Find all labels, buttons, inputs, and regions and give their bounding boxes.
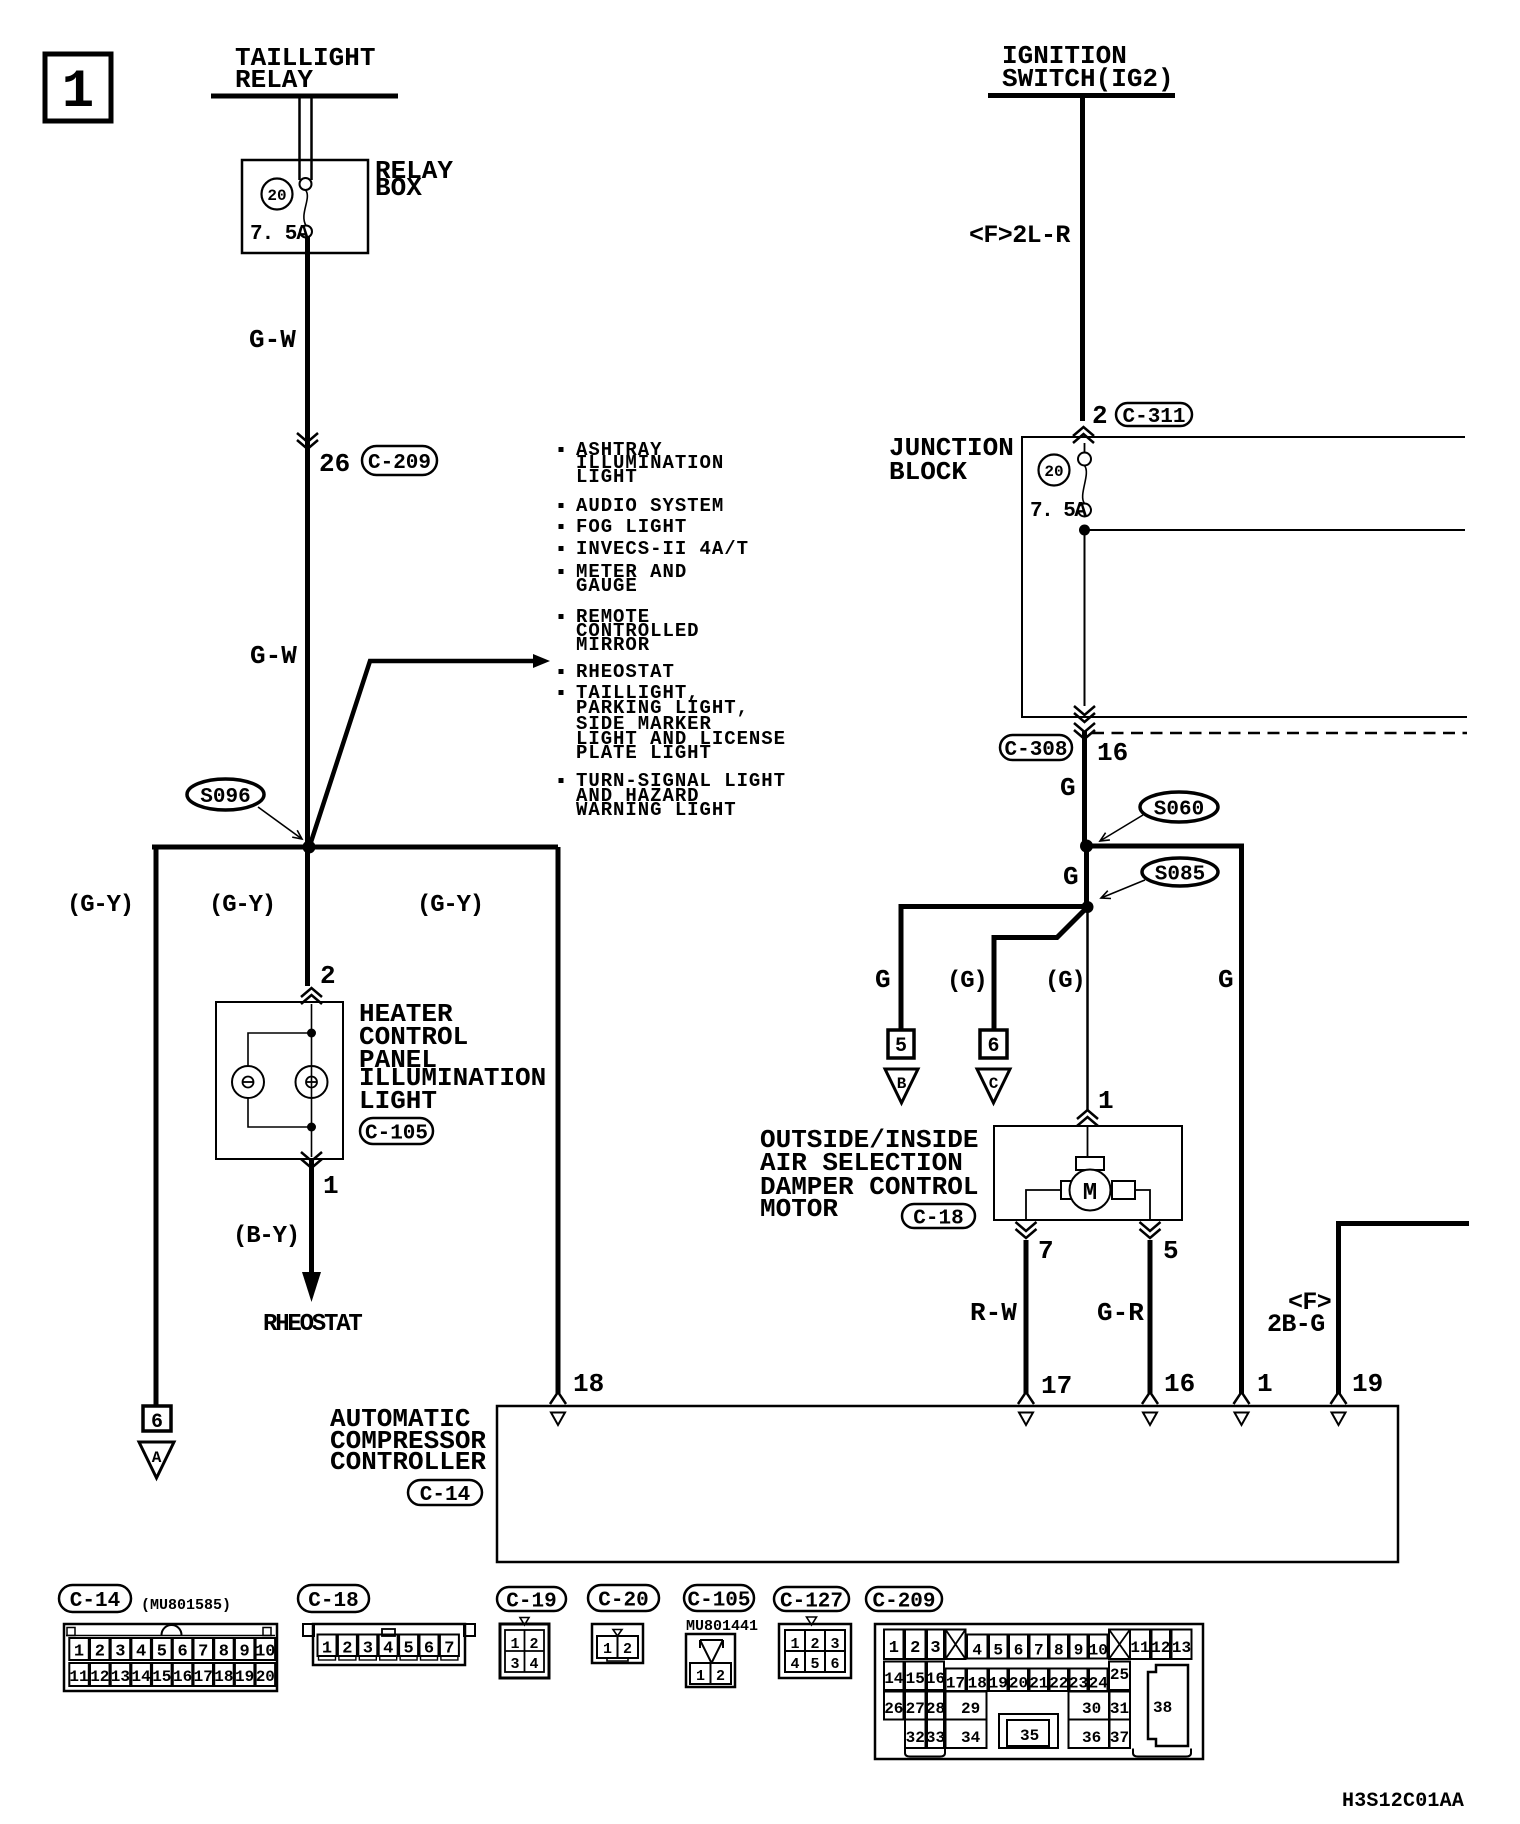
- svg-text:14: 14: [131, 1668, 151, 1686]
- svg-text:2: 2: [910, 1639, 920, 1658]
- svg-text:4: 4: [136, 1643, 146, 1662]
- connector C-311 capsule: [1116, 403, 1192, 426]
- splice S060 junction dot: [1080, 840, 1093, 853]
- relay box: [242, 160, 368, 253]
- svg-text:23: 23: [1069, 1675, 1088, 1693]
- svg-text:4: 4: [529, 1656, 538, 1673]
- svg-text:8: 8: [219, 1643, 229, 1662]
- wire G branch right to controller pin 1: [1087, 846, 1242, 1394]
- svg-text:LIGHT: LIGHT: [359, 1086, 437, 1116]
- svg-text:14: 14: [884, 1670, 904, 1688]
- connector C-14 pinout: [59, 1585, 131, 1612]
- svg-text:MOTOR: MOTOR: [760, 1194, 838, 1224]
- svg-text:(B-Y): (B-Y): [233, 1223, 299, 1250]
- motor cap: [1076, 1157, 1104, 1170]
- junction dot below fuse: [1079, 525, 1090, 536]
- svg-text:RHEOSTAT: RHEOSTAT: [263, 1311, 362, 1338]
- svg-text:<F>2L-R: <F>2L-R: [969, 221, 1070, 250]
- svg-text:AUDIO SYSTEM: AUDIO SYSTEM: [576, 495, 724, 517]
- wire to motor: [1087, 1126, 1089, 1158]
- svg-text:19: 19: [989, 1675, 1008, 1693]
- junction block entry chevron pin 2: [1073, 434, 1094, 443]
- svg-text:2: 2: [810, 1636, 819, 1653]
- svg-text:7. 5A: 7. 5A: [250, 223, 309, 246]
- junction block exit chevron pin 16: [1074, 706, 1095, 715]
- svg-text:35: 35: [1020, 1727, 1039, 1745]
- terminal 6 box (A): [143, 1406, 171, 1431]
- svg-text:R-W: R-W: [970, 1298, 1017, 1328]
- svg-text:6: 6: [830, 1656, 839, 1673]
- wire G-R to controller pin 16: [1148, 1240, 1153, 1394]
- svg-text:B: B: [897, 1075, 907, 1093]
- svg-text:M: M: [1083, 1180, 1097, 1207]
- svg-text:2B-G: 2B-G: [1267, 1310, 1325, 1339]
- leader arrow S060: [1100, 815, 1143, 841]
- svg-text:18: 18: [214, 1668, 233, 1686]
- svg-text:(G-Y): (G-Y): [209, 892, 275, 919]
- junction block outline: [1022, 437, 1467, 717]
- motor symbol M: [1061, 1181, 1085, 1199]
- svg-text:22: 22: [1049, 1675, 1068, 1693]
- svg-text:C-209: C-209: [368, 452, 431, 475]
- svg-text:19: 19: [1352, 1369, 1383, 1399]
- svg-text:19: 19: [235, 1668, 254, 1686]
- leader arrow S096: [258, 807, 302, 839]
- reference arrowhead: [533, 654, 550, 668]
- svg-text:7. 5A: 7. 5A: [1030, 500, 1087, 523]
- svg-text:C-19: C-19: [506, 1590, 556, 1613]
- rheostat arrowhead: [302, 1272, 321, 1302]
- svg-text:C-14: C-14: [420, 1484, 470, 1507]
- svg-text:9: 9: [1074, 1642, 1084, 1660]
- svg-text:17: 17: [194, 1668, 213, 1686]
- connector C-209 pass-through chevron pin 26: [297, 433, 318, 442]
- splice S060 label: [1140, 792, 1218, 822]
- connector C-308 capsule: [1000, 735, 1072, 760]
- svg-text:C-18: C-18: [913, 1207, 963, 1230]
- svg-text:17: 17: [1041, 1371, 1072, 1401]
- svg-text:5: 5: [157, 1643, 167, 1662]
- svg-text:1: 1: [510, 1636, 519, 1653]
- svg-text:3: 3: [510, 1656, 519, 1673]
- svg-text:6: 6: [1014, 1642, 1024, 1660]
- svg-text:1: 1: [1257, 1369, 1273, 1399]
- wire G S060 to S085: [1084, 846, 1089, 907]
- svg-text:18: 18: [968, 1675, 987, 1693]
- svg-text:6: 6: [151, 1411, 163, 1434]
- ignition switch bar: [988, 93, 1175, 98]
- svg-text:5: 5: [993, 1642, 1003, 1660]
- svg-text:16: 16: [926, 1670, 945, 1688]
- keying X box 2: [1109, 1630, 1130, 1660]
- fuse 20 in relay box: [262, 179, 293, 210]
- heater control panel illumination light box: [216, 1002, 343, 1159]
- cell 35: [999, 1714, 1058, 1748]
- svg-text:29: 29: [961, 1700, 980, 1718]
- svg-text:C-127: C-127: [780, 1590, 843, 1613]
- splice S096 junction dot: [303, 841, 316, 854]
- svg-text:12: 12: [90, 1668, 109, 1686]
- lamp 1: [232, 1066, 264, 1098]
- svg-text:(G): (G): [947, 968, 987, 995]
- svg-text:S096: S096: [200, 786, 250, 809]
- splice S085 label: [1142, 858, 1218, 886]
- wire G-Y left branch: [154, 847, 159, 1406]
- svg-text:24: 24: [1089, 1675, 1109, 1693]
- wire inside lamp box: [311, 1004, 313, 1157]
- svg-text:32: 32: [906, 1729, 925, 1747]
- svg-text:28: 28: [926, 1700, 945, 1718]
- svg-text:26: 26: [884, 1700, 903, 1718]
- svg-text:10: 10: [1089, 1642, 1108, 1660]
- svg-text:BLOCK: BLOCK: [889, 457, 967, 487]
- svg-text:3: 3: [115, 1643, 125, 1662]
- svg-text:16: 16: [1164, 1369, 1195, 1399]
- reference arrow to illumination loads: [310, 661, 535, 845]
- wire G-Y middle branch down to heater panel: [305, 847, 310, 986]
- svg-text:16: 16: [173, 1668, 192, 1686]
- connector C-14 capsule: [408, 1480, 482, 1505]
- controller pin entry triangles: [551, 1413, 565, 1426]
- svg-text:INVECS-II 4A/T: INVECS-II 4A/T: [576, 538, 749, 560]
- svg-text:4: 4: [972, 1642, 982, 1660]
- wire B-Y to rheostat: [309, 1160, 314, 1278]
- connector B triangle: [885, 1069, 918, 1103]
- svg-text:C-209: C-209: [872, 1590, 935, 1613]
- terminal 6 box: [980, 1030, 1007, 1058]
- svg-text:MU801441: MU801441: [686, 1618, 758, 1635]
- svg-text:LIGHT: LIGHT: [576, 466, 638, 488]
- connector C-18 pinout: [298, 1585, 369, 1612]
- wire G to terminal 5: [901, 907, 1088, 1031]
- motor lead wires: [1026, 1190, 1061, 1220]
- svg-text:2: 2: [529, 1636, 538, 1653]
- svg-text:C-105: C-105: [365, 1122, 428, 1145]
- bottom tabs: [905, 1749, 945, 1757]
- splice S085 junction dot: [1082, 901, 1094, 913]
- svg-text:6: 6: [177, 1643, 187, 1662]
- svg-text:G: G: [1060, 773, 1076, 803]
- svg-text:PLATE LIGHT: PLATE LIGHT: [576, 742, 712, 764]
- svg-text:C-20: C-20: [598, 1589, 648, 1612]
- fuse 20 in junction block: [1039, 455, 1070, 486]
- svg-text:20: 20: [256, 1668, 275, 1686]
- wire G junction block to S060: [1082, 731, 1087, 846]
- svg-text:2: 2: [95, 1643, 105, 1662]
- dashed continuation line: [1092, 732, 1467, 735]
- lamp junction dot bottom: [307, 1123, 316, 1132]
- svg-text:16: 16: [1097, 738, 1128, 768]
- svg-text:S060: S060: [1154, 799, 1204, 822]
- svg-text:25: 25: [1110, 1666, 1129, 1684]
- svg-text:18: 18: [573, 1369, 604, 1399]
- pin 38: [1148, 1665, 1188, 1746]
- svg-text:G: G: [1063, 862, 1079, 892]
- svg-text:G-R: G-R: [1097, 1298, 1144, 1328]
- svg-text:5: 5: [895, 1035, 907, 1058]
- svg-text:7: 7: [198, 1643, 208, 1662]
- svg-text:1: 1: [696, 1668, 705, 1685]
- svg-text:7: 7: [1034, 1642, 1044, 1660]
- svg-text:RHEOSTAT: RHEOSTAT: [576, 661, 675, 683]
- svg-text:2: 2: [623, 1641, 632, 1658]
- svg-text:1: 1: [62, 62, 94, 123]
- svg-text:20: 20: [1009, 1675, 1028, 1693]
- motor exit chevron pin 7: [1016, 1222, 1037, 1231]
- svg-text:3: 3: [830, 1636, 839, 1653]
- svg-text:2: 2: [320, 961, 336, 991]
- connector C-209 capsule: [362, 446, 437, 475]
- svg-text:11: 11: [69, 1668, 88, 1686]
- svg-text:30: 30: [1082, 1700, 1101, 1718]
- lamp junction dot top: [307, 1029, 316, 1038]
- svg-text:9: 9: [239, 1643, 249, 1662]
- svg-text:C-311: C-311: [1122, 406, 1185, 429]
- svg-text:(G): (G): [1045, 968, 1085, 995]
- svg-text:15: 15: [906, 1670, 925, 1688]
- connector C-20 pinout: [588, 1585, 659, 1611]
- svg-text:C-105: C-105: [687, 1589, 750, 1612]
- svg-text:26: 26: [319, 449, 350, 479]
- connector C-105 capsule: [360, 1118, 433, 1144]
- svg-text:C-308: C-308: [1004, 739, 1067, 762]
- automatic compressor controller box C-14: [497, 1406, 1398, 1562]
- motor entry chevron pin 1: [1077, 1117, 1098, 1126]
- connector C-19 pinout: [497, 1587, 566, 1611]
- keying X box 1: [946, 1630, 966, 1660]
- wire down inside junction block: [1084, 530, 1086, 706]
- leader arrow S085: [1101, 880, 1145, 898]
- taillight relay supply bar: [211, 94, 398, 99]
- connector A triangle: [139, 1442, 174, 1478]
- svg-text:C: C: [989, 1075, 999, 1093]
- bus wire G-Y horizontal: [152, 845, 558, 850]
- svg-text:38: 38: [1153, 1699, 1172, 1717]
- motor exit chevron pin 5: [1140, 1222, 1161, 1231]
- connector C-18 capsule: [902, 1204, 975, 1228]
- svg-text:20: 20: [267, 187, 286, 205]
- svg-text:1: 1: [889, 1639, 899, 1658]
- svg-text:12: 12: [1151, 1639, 1170, 1657]
- svg-text:C-18: C-18: [308, 1590, 358, 1613]
- wire (G) main to motor: [1086, 907, 1089, 1110]
- svg-text:13: 13: [1172, 1639, 1191, 1657]
- svg-text:BOX: BOX: [375, 173, 422, 203]
- svg-text:1: 1: [74, 1643, 84, 1662]
- svg-text:2: 2: [1092, 401, 1108, 431]
- splice S096 label: [187, 779, 264, 810]
- connector C-105 pinout: [684, 1585, 754, 1611]
- svg-text:1: 1: [323, 1171, 339, 1201]
- connector C-105 exit chevron: [301, 1152, 322, 1161]
- connector C-127 pinout: [774, 1587, 849, 1611]
- svg-text:(G-Y): (G-Y): [67, 892, 133, 919]
- svg-text:SWITCH(IG2): SWITCH(IG2): [1002, 64, 1174, 94]
- svg-text:S085: S085: [1155, 864, 1205, 887]
- wire (double line from relay to fuse): [298, 98, 301, 180]
- svg-text:WARNING LIGHT: WARNING LIGHT: [576, 799, 737, 821]
- svg-text:8: 8: [1054, 1642, 1064, 1660]
- svg-text:21: 21: [1029, 1675, 1048, 1693]
- wire R-W to controller pin 17: [1024, 1240, 1029, 1394]
- lamp branch wires: [248, 1033, 312, 1066]
- svg-text:FOG LIGHT: FOG LIGHT: [576, 516, 687, 538]
- connector C-105 entry chevron: [301, 995, 322, 1004]
- svg-text:G: G: [1218, 965, 1234, 995]
- terminal 5 box: [888, 1030, 914, 1058]
- wire (G) to terminal 6: [994, 907, 1088, 1030]
- svg-text:17: 17: [946, 1675, 965, 1693]
- svg-text:36: 36: [1082, 1729, 1101, 1747]
- svg-text:27: 27: [906, 1700, 925, 1718]
- page number box 1: [45, 54, 111, 121]
- connector C-209 pinout: [866, 1587, 942, 1611]
- svg-text:1: 1: [1098, 1086, 1114, 1116]
- svg-text:37: 37: [1110, 1729, 1129, 1747]
- svg-text:RELAY: RELAY: [235, 65, 313, 95]
- svg-text:11: 11: [1130, 1639, 1149, 1657]
- svg-text:6: 6: [987, 1035, 999, 1058]
- svg-text:G-W: G-W: [250, 641, 297, 671]
- svg-text:A: A: [152, 1449, 162, 1467]
- svg-text:2: 2: [716, 1668, 725, 1685]
- illuminated components list: [559, 447, 564, 452]
- svg-text:CONTROLLER: CONTROLLER: [330, 1447, 486, 1477]
- svg-text:20: 20: [1044, 463, 1063, 481]
- svg-text:C-14: C-14: [70, 1590, 120, 1613]
- wire G-W fuse to splice S096: [305, 237, 310, 847]
- svg-text:(G-Y): (G-Y): [417, 892, 483, 919]
- lamp 2: [296, 1066, 328, 1098]
- svg-text:1: 1: [603, 1641, 612, 1658]
- svg-text:33: 33: [926, 1729, 945, 1747]
- svg-text:G-W: G-W: [249, 325, 296, 355]
- svg-text:15: 15: [152, 1668, 171, 1686]
- svg-text:5: 5: [810, 1656, 819, 1673]
- svg-text:GAUGE: GAUGE: [576, 575, 638, 597]
- svg-text:H3S12C01AA: H3S12C01AA: [1342, 1790, 1464, 1813]
- wire (F)2L-R ignition feed: [1080, 96, 1085, 422]
- svg-text:MIRROR: MIRROR: [576, 634, 650, 656]
- junction block bus line right: [1085, 529, 1466, 531]
- wire G-Y right branch to controller pin 18: [556, 847, 561, 1394]
- wire 2B-G to controller pin 19: [1339, 1224, 1470, 1395]
- svg-text:31: 31: [1110, 1700, 1129, 1718]
- svg-text:4: 4: [790, 1656, 799, 1673]
- svg-text:10: 10: [255, 1643, 275, 1662]
- svg-text:13: 13: [111, 1668, 130, 1686]
- svg-text:(MU801585): (MU801585): [141, 1597, 231, 1614]
- svg-text:1: 1: [790, 1636, 799, 1653]
- svg-text:34: 34: [961, 1729, 981, 1747]
- svg-text:G: G: [875, 965, 891, 995]
- connector C triangle: [977, 1069, 1010, 1103]
- svg-text:7: 7: [1038, 1236, 1054, 1266]
- svg-text:3: 3: [930, 1639, 940, 1658]
- damper control motor box: [994, 1126, 1182, 1220]
- svg-text:5: 5: [1163, 1236, 1179, 1266]
